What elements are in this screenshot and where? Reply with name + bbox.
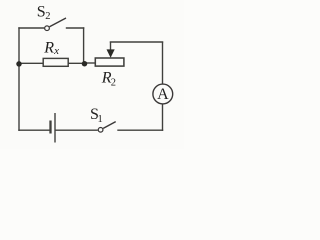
wire: right vertical of S2/Rx loop down to node xyxy=(83,27,85,62)
switch S1 blade xyxy=(103,122,116,129)
wire: bottom left segment (battery to corner) xyxy=(18,129,50,131)
wire: top branch left (to S2) xyxy=(18,27,44,29)
label S1 xyxy=(90,106,103,125)
wire: R2 wiper riser xyxy=(110,42,112,51)
label S2 xyxy=(37,4,51,22)
svg-text:A: A xyxy=(157,86,169,103)
wire: Rx branch right segment xyxy=(68,62,85,64)
paper background xyxy=(0,0,184,149)
svg-text:2: 2 xyxy=(111,78,116,89)
node: left junction dot xyxy=(16,61,22,67)
svg-text:x: x xyxy=(53,45,59,57)
label R2 xyxy=(101,69,116,88)
wire: right vertical upper (to ammeter) xyxy=(162,42,164,85)
wire: right vertical lower (ammeter to bottom) xyxy=(162,104,164,131)
ammeter A1 letter xyxy=(157,86,169,103)
battery long plate (+) xyxy=(54,113,56,143)
svg-text:2: 2 xyxy=(45,11,50,22)
node: right junction dot xyxy=(82,61,88,66)
battery short plate (-) xyxy=(49,121,51,134)
switch S2 pivot circle xyxy=(45,26,50,31)
switch S2 blade xyxy=(50,18,67,27)
wire: top right horizontal xyxy=(110,41,163,43)
ammeter A1 body xyxy=(153,84,173,104)
rheostat R2 wiper arrowhead xyxy=(107,49,115,57)
resistor Rx box xyxy=(43,58,68,66)
wire: left vertical xyxy=(18,27,20,131)
label Rx xyxy=(43,39,59,56)
wire: node to R2 left terminal xyxy=(85,62,96,64)
wire: top branch right (S2 to corner) xyxy=(66,27,85,29)
svg-text:1: 1 xyxy=(98,114,103,125)
wire: bottom right segment (corner to S1) xyxy=(117,129,163,131)
switch S1 pivot circle xyxy=(98,127,103,132)
rheostat R2 box xyxy=(95,58,124,66)
wire: bottom middle segment (S1 to battery) xyxy=(55,129,98,131)
svg-text:R: R xyxy=(43,39,54,56)
wire: Rx branch left segment xyxy=(19,62,44,64)
